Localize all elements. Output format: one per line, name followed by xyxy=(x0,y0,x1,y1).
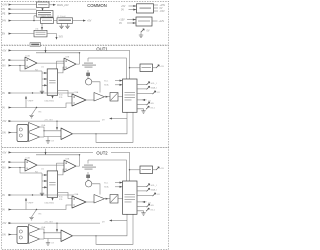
feedback wire xyxy=(20,66,42,72)
svg-text:0V: 0V xyxy=(147,30,150,33)
svg-text:-15V: -15V xyxy=(160,10,165,13)
wire agnd to U3A xyxy=(9,103,73,108)
wire dac pin to opamp2 -in xyxy=(58,67,64,73)
wire xyxy=(49,4,53,6)
ferrite FB1 xyxy=(110,93,118,102)
svg-text:U3A: U3A xyxy=(74,91,79,94)
svg-text:+5V: +5V xyxy=(160,66,164,68)
svg-text:VREF: VREF xyxy=(28,101,34,103)
regulator U12 xyxy=(136,17,152,26)
svg-text:0V: 0V xyxy=(2,8,5,11)
ground xyxy=(29,116,33,118)
pins out xyxy=(154,5,159,11)
svg-text:0V: 0V xyxy=(2,107,5,110)
section border OUT1 xyxy=(1,46,168,148)
wire xyxy=(9,13,37,15)
svg-text:U2B: U2B xyxy=(65,56,70,58)
wire 0V rail xyxy=(9,92,75,94)
wire opamp1 out xyxy=(37,62,64,64)
svg-text:0V: 0V xyxy=(2,92,5,95)
svg-text:+5V_ISO: +5V_ISO xyxy=(44,119,53,121)
wire ldo out xyxy=(47,34,57,39)
svg-text:+5V: +5V xyxy=(2,120,7,123)
wire xyxy=(127,19,136,21)
net arrow onto rail B xyxy=(45,47,47,53)
svg-text:24V: 24V xyxy=(2,20,7,23)
wire 5V out xyxy=(73,20,84,22)
svg-text:DAC8560: DAC8560 xyxy=(45,99,55,102)
capacitor C9 xyxy=(47,137,49,141)
filter FL1 xyxy=(37,11,54,18)
net flag VREF xyxy=(25,99,27,108)
op-amp U3B xyxy=(94,93,105,102)
wire circle to buffer2 xyxy=(92,82,100,93)
regulator U10 xyxy=(41,18,54,24)
wire reg to lc xyxy=(54,20,58,22)
drop from iso rail xyxy=(56,121,58,129)
wire dac to opamp2 +in xyxy=(57,61,65,69)
wire xyxy=(129,5,137,7)
diode D1 xyxy=(86,73,90,76)
wire U3B out xyxy=(105,96,111,98)
iso pin SDA out xyxy=(137,88,147,90)
comparator U6 xyxy=(61,128,73,140)
svg-text:OUT2: OUT2 xyxy=(96,150,108,155)
svg-text:VO: VO xyxy=(157,92,160,94)
wire lm4040 net xyxy=(88,58,126,79)
buffer U5B xyxy=(29,133,40,142)
wire +5V rail A xyxy=(9,50,130,79)
dac pin bus xyxy=(42,71,47,92)
op-amp U2B xyxy=(64,58,76,70)
iso pin IO xyxy=(137,99,147,101)
svg-text:SCL_I: SCL_I xyxy=(151,83,157,85)
LM4040 text xyxy=(84,63,93,64)
svg-text:0V_I: 0V_I xyxy=(151,107,156,109)
net label box VOUT xyxy=(30,43,41,47)
op-amp U3A xyxy=(72,94,86,106)
svg-text:U2A: U2A xyxy=(26,55,31,58)
svg-text:PE: PE xyxy=(2,13,6,16)
svg-text:+5V: +5V xyxy=(2,50,7,53)
wire dac bottom stub xyxy=(52,94,54,97)
svg-text:3V3: 3V3 xyxy=(59,36,64,39)
section border COMMON xyxy=(1,1,168,45)
wire comp out to iso xyxy=(73,112,128,134)
ground xyxy=(141,111,145,113)
svg-text:GD: GD xyxy=(151,103,155,105)
iso gnd pin xyxy=(137,109,144,111)
pin out xyxy=(152,20,158,22)
wire xyxy=(127,22,136,24)
wire fuse to filter xyxy=(42,8,44,11)
wire fb tap xyxy=(112,118,127,120)
iso amp U7 xyxy=(123,79,138,112)
OUT2 content copy xyxy=(2,149,164,245)
wire xyxy=(129,9,137,11)
optocoupler OK1 xyxy=(17,125,28,142)
svg-text:SN: SN xyxy=(2,65,6,68)
wire iso 5v rail xyxy=(9,120,101,122)
svg-text:SDA_I: SDA_I xyxy=(151,86,158,89)
capacitor C2 xyxy=(67,23,69,26)
svg-text:+5V: +5V xyxy=(87,20,92,23)
wire buffers join xyxy=(40,127,45,137)
svg-text:+12V: +12V xyxy=(159,20,165,23)
current source Q1 xyxy=(85,79,91,85)
wire opamp2 out to rail B xyxy=(76,53,80,64)
wire filter out down xyxy=(34,16,37,21)
section border OUT2 xyxy=(1,148,168,250)
wire iso return xyxy=(96,112,133,142)
wire to ldo xyxy=(41,23,43,30)
dcdc U8 xyxy=(140,64,153,72)
op-amp U2A xyxy=(25,57,37,69)
wire xyxy=(9,8,37,10)
svg-text:EN: EN xyxy=(2,33,6,36)
resistor R6 diagonal xyxy=(32,108,37,116)
svg-text:0V: 0V xyxy=(119,22,122,25)
ground xyxy=(40,91,44,93)
wire dcdc in xyxy=(130,67,141,69)
svg-text:+24V: +24V xyxy=(2,4,8,7)
ground net 0V xyxy=(140,32,142,36)
dcdc converter PS1 xyxy=(137,4,154,13)
ground xyxy=(65,26,69,28)
ground xyxy=(59,26,63,28)
wire rail B xyxy=(36,52,80,54)
wire dac out to buffer xyxy=(58,91,72,97)
iso pin GD xyxy=(137,104,147,106)
svg-text:ON: ON xyxy=(2,132,6,135)
wire ferrite to iso xyxy=(118,96,123,98)
wire xyxy=(9,65,26,67)
svg-text:U5A: U5A xyxy=(41,124,46,127)
iso pin VO xyxy=(137,93,153,95)
svg-text:COMMON: COMMON xyxy=(87,3,107,8)
svg-text:MAIN_24V: MAIN_24V xyxy=(57,4,69,7)
wire opto in xyxy=(9,132,18,134)
capacitor C1 xyxy=(61,23,63,26)
wire dcdc out xyxy=(153,67,157,69)
svg-text:SDA: SDA xyxy=(104,84,109,87)
wire xyxy=(9,59,26,61)
wire VIN xyxy=(9,4,37,6)
DAC U1 xyxy=(47,69,57,95)
iso pin SCL out xyxy=(137,83,147,85)
wire 24V rail xyxy=(9,20,41,22)
wire U3A out xyxy=(86,99,94,101)
section label OUT2 xyxy=(93,151,111,155)
svg-text:0V: 0V xyxy=(121,8,124,11)
buffer U5A xyxy=(29,123,40,132)
wire to comparator xyxy=(44,131,61,137)
ground xyxy=(46,141,50,143)
wire en xyxy=(9,33,35,35)
svg-text:SP: SP xyxy=(2,59,6,62)
